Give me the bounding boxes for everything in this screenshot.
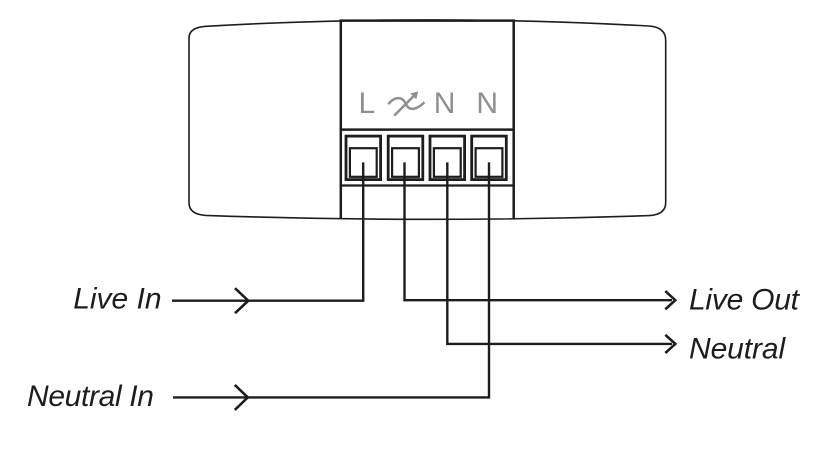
svg-text:Live Out: Live Out <box>689 284 801 317</box>
svg-text:Live In: Live In <box>73 282 161 315</box>
svg-text:L: L <box>358 87 375 120</box>
svg-text:N: N <box>476 87 498 120</box>
svg-text:N: N <box>434 87 456 120</box>
svg-text:Neutral: Neutral <box>689 333 786 366</box>
svg-text:Neutral In: Neutral In <box>27 380 154 413</box>
